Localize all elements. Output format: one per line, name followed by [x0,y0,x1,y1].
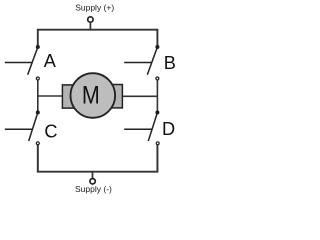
wire supply- stub [92,172,94,178]
motor left brush tab [62,85,74,108]
motor M1 body [71,73,116,118]
wire right mid vertical [156,80,158,112]
svg-text:B: B [164,53,176,73]
switch C lever [29,113,38,142]
wire left mid vertical [37,80,39,112]
switch C pivot [36,111,40,115]
svg-text:M: M [82,83,100,110]
switch A throw stub [5,62,32,64]
svg-text:C: C [44,121,57,141]
wire bottom rail [38,145,158,172]
switch A pivot [36,45,40,49]
switch D lever [148,113,157,142]
svg-text:D: D [162,119,175,139]
switch A contact [36,77,39,80]
wire supply+ stub [89,23,91,30]
wire to motor left [38,95,63,97]
svg-text:Supply (+): Supply (+) [75,3,114,13]
wire top rail [38,30,158,47]
wire to motor right [122,95,157,97]
switch B pivot [155,45,159,49]
svg-text:Supply (-): Supply (-) [75,184,112,194]
switch B throw stub [124,62,152,64]
wire D to bottom rail [156,145,158,172]
switch A lever [28,47,38,75]
switch C throw stub [5,128,33,130]
switch D pivot [155,111,159,115]
switch B lever [147,47,157,75]
terminal supply- [90,179,95,184]
svg-text:A: A [44,51,57,71]
switch D throw stub [124,128,152,130]
motor right brush tab [111,85,122,108]
switch B contact [156,77,159,80]
terminal supply+ [88,17,93,22]
wire C to bottom rail [37,145,39,172]
switch C contact [36,142,39,145]
switch D contact [156,142,159,145]
